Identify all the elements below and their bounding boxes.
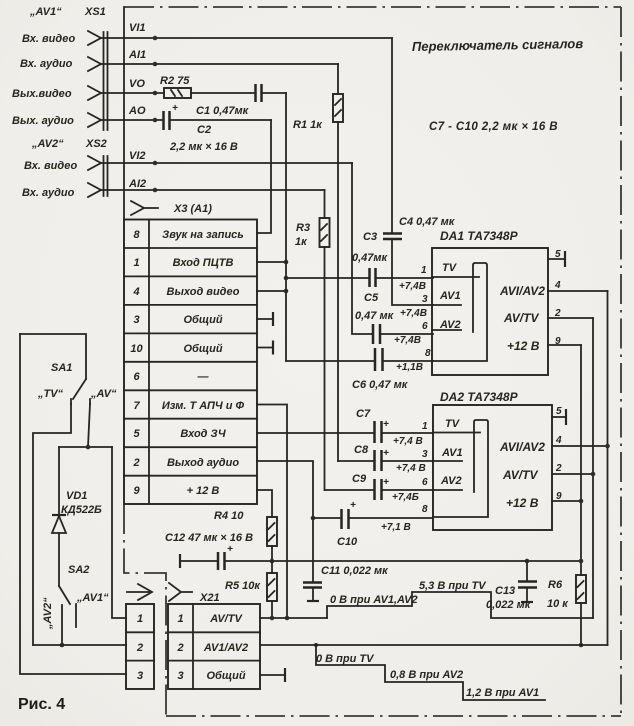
wire DA1 pin1 line (286, 277, 433, 279)
wire SA1 TV contact down (33, 404, 71, 645)
wire AV1/AV2 row X21 (260, 644, 608, 646)
wire C9 to DA2 pin6 (382, 489, 433, 491)
svg-text:КД522Б: КД522Б (61, 504, 102, 516)
capacitor C6 (352, 348, 409, 391)
svg-text:С2: С2 (197, 124, 211, 136)
node bus AVI/AV2 at DA2 pin4 (605, 444, 610, 449)
node R6 on AV1/AV2 wire (579, 643, 584, 648)
ground X21 pin3 (260, 674, 284, 676)
svg-text:С12 47 мк × 16 В: С12 47 мк × 16 В (165, 532, 253, 544)
svg-text:AI2: AI2 (128, 178, 146, 190)
svg-text:„AV1“: „AV1“ (76, 592, 109, 604)
svg-text:+12 В: +12 В (507, 339, 540, 353)
node SA2 AV2 contact (60, 643, 65, 648)
svg-text:DA2 ТА7348Р: DA2 ТА7348Р (440, 390, 519, 404)
node AI2 (153, 188, 158, 193)
wire VO middle (191, 92, 254, 94)
svg-text:R2 75: R2 75 (160, 75, 190, 87)
capacitor C7 (356, 408, 389, 443)
svg-text:AV/TV: AV/TV (209, 613, 243, 625)
wire VI2 vertical to DA1 pin6 (352, 163, 373, 334)
capacitor C12 (165, 532, 253, 570)
svg-text:Общий: Общий (183, 314, 222, 326)
resistor R1 (293, 64, 343, 461)
wire AO left (101, 119, 162, 121)
svg-text:+7,4В: +7,4В (394, 335, 421, 346)
svg-text:С8: С8 (354, 444, 369, 456)
svg-text:1,2 В при AV1: 1,2 В при AV1 (466, 687, 539, 699)
svg-text:„AV1“: „AV1“ (29, 6, 62, 18)
XS1 chevron video in (88, 31, 101, 45)
wire X3 pin8 to AO (257, 120, 271, 233)
resistor R5 (225, 561, 277, 618)
node VI2 (153, 161, 158, 166)
resistor R2 (160, 75, 191, 98)
svg-text:5,3 В при TV: 5,3 В при TV (419, 580, 487, 592)
bus AVI/AV2 vertical (607, 291, 609, 645)
svg-text:9: 9 (556, 491, 562, 502)
node X3 pin7 on AV/TV wire (285, 616, 290, 621)
svg-text:1: 1 (422, 421, 428, 432)
wire R3 corner to C9 (325, 489, 375, 491)
svg-text:10: 10 (130, 343, 143, 355)
ground X3 pin3 (257, 318, 272, 320)
svg-text:2: 2 (176, 642, 183, 654)
capacitor C9 (352, 473, 389, 500)
pin DA1-2 wire (548, 317, 593, 319)
svg-text:6: 6 (133, 371, 140, 383)
svg-text:X21: X21 (199, 592, 220, 604)
svg-text:Вх. видео: Вх. видео (22, 33, 75, 45)
svg-text:3: 3 (422, 449, 428, 460)
wire X3 pin9 to R4 (257, 490, 272, 517)
node X3 pin4 junction (284, 289, 289, 294)
svg-text:AV/TV: AV/TV (503, 311, 539, 325)
svg-text:3: 3 (133, 314, 139, 326)
svg-text:Вход ПЦТВ: Вход ПЦТВ (173, 257, 234, 269)
svg-text:1: 1 (133, 257, 139, 269)
XS1 chevron audio out (88, 113, 101, 127)
svg-text:8: 8 (425, 348, 431, 359)
wire C7 to DA2 pin1 (382, 432, 433, 434)
svg-text:+: + (172, 103, 178, 114)
svg-text:TV: TV (442, 262, 458, 274)
svg-text:С6 0,47 мк: С6 0,47 мк (352, 379, 409, 391)
node pin1 line start (284, 276, 289, 281)
svg-text:Вых.видео: Вых.видео (12, 88, 72, 100)
svg-text:Вх. видео: Вх. видео (24, 160, 77, 172)
svg-text:Общий: Общий (206, 670, 245, 682)
wire VO vertical feed (285, 93, 287, 361)
node rail C13 (525, 559, 530, 564)
node SA1 AV join (86, 445, 91, 450)
svg-text:Звук на запись: Звук на запись (162, 229, 244, 241)
connector table X21 (168, 604, 260, 689)
svg-text:+: + (383, 477, 389, 488)
connector table X3 (124, 220, 257, 505)
svg-text:—: — (197, 371, 210, 383)
connector X21 fork symbol (169, 583, 192, 601)
wire SA1 AV contact down (88, 404, 90, 447)
resistor R6 (547, 575, 586, 645)
svg-text:5: 5 (133, 428, 140, 440)
wire AI2 (101, 189, 325, 191)
svg-text:С4 0,47 мк: С4 0,47 мк (399, 216, 456, 228)
svg-text:4: 4 (554, 280, 561, 291)
wire DA1 pin8 line (286, 360, 433, 362)
svg-text:SA1: SA1 (51, 362, 72, 374)
wire VI2 (101, 162, 352, 164)
module border left lower dash-dot (124, 504, 166, 716)
IC DA2 TA7348P (433, 390, 552, 530)
svg-text:XS2: XS2 (85, 138, 107, 150)
svg-text:R3: R3 (296, 222, 310, 234)
capacitor C11 (303, 565, 389, 601)
svg-text:+ 12 В: + 12 В (187, 485, 220, 497)
node C10 branch (311, 516, 316, 521)
capacitor C8 (354, 444, 389, 471)
node AO (153, 118, 158, 123)
+12V rail terminal bar (179, 554, 181, 568)
svg-text:1: 1 (177, 613, 183, 625)
capacitor C5 (355, 292, 395, 344)
pin DA2-5 stub and bar (552, 416, 565, 418)
svg-text:С13: С13 (495, 585, 515, 597)
svg-text:DA1 ТА7348Р: DA1 ТА7348Р (440, 229, 519, 243)
wire X3 pin2 to C10 (257, 461, 313, 582)
svg-text:+7,4В: +7,4В (400, 308, 427, 319)
svg-text:VI1: VI1 (129, 22, 146, 34)
svg-text:+7,4Б: +7,4Б (392, 492, 419, 503)
svg-text:AV1: AV1 (441, 447, 463, 459)
svg-text:+7,4В: +7,4В (399, 281, 426, 292)
module border bottom (166, 715, 621, 717)
op-amp U: IC DA1 TA7348P (432, 229, 548, 375)
svg-text:+7,4 В: +7,4 В (393, 436, 423, 447)
wire C10 to DA2 pin8 (313, 517, 433, 519)
switch SA1 (20, 334, 117, 404)
wire R1 corner to C8 (338, 460, 374, 462)
svg-text:С5: С5 (364, 292, 379, 304)
wire X3 pin4 (257, 290, 286, 292)
svg-text:Общий: Общий (183, 343, 222, 355)
svg-text:С11 0,022 мк: С11 0,022 мк (321, 565, 389, 577)
wire to X21 row3 (20, 334, 126, 674)
svg-text:Вх. аудио: Вх. аудио (20, 58, 73, 70)
node R5 on AV/TV wire (270, 616, 275, 621)
svg-text:Рис. 4: Рис. 4 (18, 696, 65, 713)
switch SA2 (42, 564, 109, 645)
svg-text:1: 1 (137, 613, 143, 625)
svg-text:3: 3 (177, 670, 183, 682)
svg-text:С9: С9 (352, 473, 367, 485)
svg-text:„AV“: „AV“ (90, 388, 117, 400)
svg-text:Вых. аудио: Вых. аудио (12, 115, 74, 127)
XS1 chevron video out (88, 86, 101, 100)
capacitor C10 (337, 500, 358, 548)
svg-text:10 к: 10 к (547, 598, 569, 610)
svg-text:X3 (А1): X3 (А1) (173, 203, 212, 215)
svg-text:5: 5 (555, 249, 561, 260)
wire AV/TV row X21 (260, 617, 327, 619)
svg-text:9: 9 (555, 336, 561, 347)
capacitor C2 (164, 103, 238, 153)
svg-text:9: 9 (133, 485, 140, 497)
svg-text:SA2: SA2 (68, 564, 89, 576)
svg-text:AV2: AV2 (440, 475, 462, 487)
wire VO right (262, 92, 286, 94)
svg-text:С7: С7 (356, 408, 371, 420)
wire rail left (180, 560, 217, 562)
wire AO right (170, 119, 271, 121)
svg-text:6: 6 (422, 321, 428, 332)
svg-text:0 В при AV1,AV2: 0 В при AV1,AV2 (330, 594, 418, 606)
wire X3 pin7 down to AV/TV line (257, 405, 287, 619)
svg-text:6: 6 (422, 477, 428, 488)
wire AV1/AV2 annotation steps (316, 645, 545, 700)
svg-text:+: + (383, 448, 389, 459)
svg-text:AI1: AI1 (128, 49, 146, 61)
resistor R3 (295, 190, 330, 490)
svg-text:3: 3 (422, 294, 428, 305)
pin DA1-9 wire (548, 344, 581, 346)
module A2 dash-dot border top (124, 6, 621, 8)
wire C3 to DA1 pin3 (392, 239, 433, 305)
svg-text:AO: AO (128, 105, 146, 117)
svg-text:8: 8 (422, 504, 428, 515)
svg-text:R6: R6 (548, 579, 563, 591)
svg-text:AVI/AV2: AVI/AV2 (499, 284, 545, 298)
svg-text:Изм. Т АПЧ и Ф: Изм. Т АПЧ и Ф (162, 400, 245, 412)
capacitor C13 (486, 561, 537, 611)
svg-text:4: 4 (132, 286, 139, 298)
svg-text:„TV“: „TV“ (37, 388, 64, 400)
svg-text:0,8 В при AV2: 0,8 В при AV2 (390, 669, 463, 681)
svg-text:+: + (350, 500, 356, 511)
wire to X21 row2 (33, 644, 126, 646)
svg-text:0,022 мк: 0,022 мк (486, 599, 532, 611)
bus AV/TV vertical (592, 318, 594, 618)
wire VD1 top node (59, 446, 112, 448)
svg-text:VI2: VI2 (129, 150, 146, 162)
svg-text:Вх. аудио: Вх. аудио (22, 187, 75, 199)
svg-text:3: 3 (137, 670, 143, 682)
svg-text:0 В при TV: 0 В при TV (316, 653, 375, 665)
node rail bus (579, 559, 584, 564)
svg-text:Переключатель сигналов: Переключатель сигналов (412, 36, 584, 54)
node bus AV/TV at DA2 pin2 (591, 472, 596, 477)
svg-text:2: 2 (136, 642, 143, 654)
resistor R4 (214, 510, 277, 561)
svg-text:7: 7 (133, 400, 140, 412)
wire C8 to DA2 pin3 (382, 460, 433, 462)
node VI1 (153, 36, 158, 41)
svg-text:+12 В: +12 В (506, 496, 539, 510)
svg-text:С3: С3 (363, 231, 377, 243)
svg-text:VO: VO (129, 78, 145, 90)
svg-text:Выход видео: Выход видео (167, 286, 240, 298)
pin DA2-4 wire (552, 445, 608, 447)
svg-text:+: + (227, 544, 233, 555)
wire AI1 (101, 63, 338, 65)
wire rail right (225, 560, 581, 562)
wire AV/TV annotation steps (327, 592, 593, 618)
diode VD1 (52, 447, 102, 586)
svg-text:8: 8 (133, 229, 140, 241)
svg-text:С7 - С10 2,2 мк × 16 В: С7 - С10 2,2 мк × 16 В (429, 121, 558, 133)
pin DA2-9 wire (552, 500, 581, 502)
svg-text:R4 10: R4 10 (214, 510, 244, 522)
svg-text:AVI/AV2: AVI/AV2 (499, 440, 545, 454)
svg-text:С10: С10 (337, 536, 358, 548)
node bus +12V at DA2 pin9 (579, 499, 584, 504)
wire VO left (101, 92, 164, 94)
capacitor C3 (352, 231, 402, 264)
wire VI1 (101, 37, 392, 39)
connector X21 mating column (126, 604, 154, 689)
svg-text:+7,4 В: +7,4 В (396, 463, 426, 474)
svg-text:R1 1к: R1 1к (293, 119, 323, 131)
node rail R4 (270, 559, 275, 564)
module boundary arrow symbol (127, 584, 152, 600)
capacitor C4 (370, 216, 456, 287)
svg-text:AV/TV: AV/TV (502, 468, 538, 482)
pin DA2-2 wire (552, 473, 593, 475)
svg-text:AV1/AV2: AV1/AV2 (203, 642, 248, 654)
pin DA1-5 stub and bar (548, 258, 564, 260)
svg-text:0,47 мк: 0,47 мк (355, 310, 395, 322)
svg-text:Вход ЗЧ: Вход ЗЧ (180, 428, 226, 440)
XS2 chevron video in (88, 156, 101, 170)
module border right (620, 7, 622, 716)
wire C5 to DA1 pin6 (381, 333, 433, 335)
node AI1 (153, 62, 158, 67)
svg-text:1к: 1к (295, 236, 308, 248)
node annotation attach (314, 643, 318, 647)
svg-text:AV1: AV1 (439, 290, 461, 302)
svg-text:„AV2“: „AV2“ (42, 597, 54, 630)
XS2 chevron audio in (88, 183, 101, 197)
node X3 pin1 junction (284, 260, 289, 265)
wire VI1 vertical (391, 38, 393, 233)
svg-text:VD1: VD1 (66, 490, 87, 502)
connector X3 fork symbol (131, 201, 158, 215)
svg-text:XS1: XS1 (84, 6, 106, 18)
capacitor C1 (196, 84, 262, 117)
svg-text:+7,1 В: +7,1 В (381, 522, 411, 533)
svg-text:5: 5 (556, 406, 562, 417)
XS1 chevron audio in (88, 57, 101, 71)
svg-text:Выход аудио: Выход аудио (167, 457, 239, 469)
wire X3 pin5 to C7 (257, 432, 373, 434)
svg-text:2: 2 (132, 457, 139, 469)
svg-text:„AV2“: „AV2“ (31, 138, 64, 150)
XS2 cable bundle (104, 156, 108, 196)
pin DA1-4 wire (548, 290, 608, 292)
svg-text:4: 4 (555, 435, 562, 446)
svg-text:2,2 мк × 16 В: 2,2 мк × 16 В (169, 141, 238, 153)
svg-text:+1,1В: +1,1В (396, 362, 423, 373)
svg-text:2: 2 (554, 308, 561, 319)
node VO (153, 91, 158, 96)
svg-text:TV: TV (445, 418, 461, 430)
ground X3 pin10 (257, 347, 272, 349)
wire to X21 row1 (112, 447, 126, 618)
svg-text:R5 10к: R5 10к (225, 580, 261, 592)
XS1 cable bundle (104, 32, 108, 130)
svg-text:1: 1 (421, 265, 427, 276)
svg-text:2: 2 (555, 463, 562, 474)
module border left upper solid (123, 7, 125, 220)
svg-text:С1 0,47мк: С1 0,47мк (196, 105, 250, 117)
wire X3 pin1 (257, 261, 286, 263)
svg-text:+: + (383, 419, 389, 430)
bus +12V vertical (580, 345, 582, 575)
svg-text:0,47мк: 0,47мк (352, 252, 389, 264)
